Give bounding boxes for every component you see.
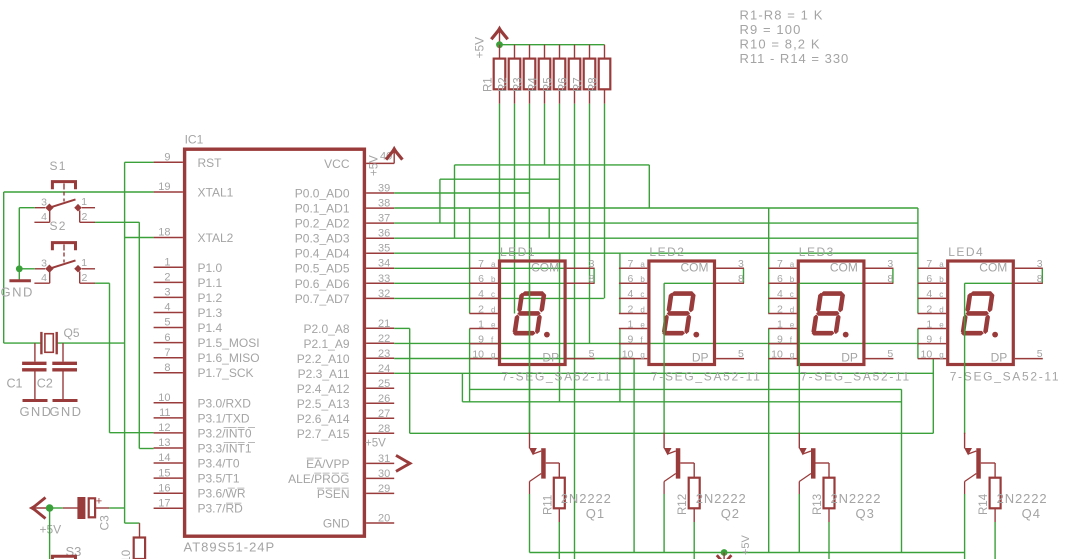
svg-text:34: 34	[378, 258, 390, 270]
pin 1 segment e of LED3	[768, 328, 796, 330]
svg-text:c: c	[790, 290, 794, 299]
pin 5 P1.4	[154, 327, 183, 329]
svg-text:7-SEG_SA52-11: 7-SEG_SA52-11	[651, 369, 762, 383]
svg-text:a: a	[939, 260, 944, 269]
capacitor C2	[62, 343, 64, 362]
svg-text:8: 8	[887, 273, 893, 285]
ground GND below S2	[18, 269, 20, 280]
svg-text:37: 37	[378, 213, 390, 225]
svg-text:6: 6	[478, 273, 484, 285]
pin 3 COM of LED3	[866, 267, 894, 269]
display LED1 decimal point	[544, 332, 550, 338]
pin 1 P1.0	[154, 266, 183, 268]
svg-text:P2.7_A15: P2.7_A15	[297, 427, 350, 441]
svg-text:e: e	[491, 320, 496, 329]
pin 14 P3.4/T0	[154, 462, 183, 464]
svg-text:GND: GND	[1, 285, 34, 300]
wire emitter feed Q3	[798, 283, 800, 434]
pin 1 segment e of LED1	[470, 328, 498, 330]
wire mid drop x634	[633, 359, 635, 553]
pin 2 segment d of LED2	[619, 313, 647, 315]
display LED2 decimal point	[693, 332, 699, 338]
pin 24 P2.3_A11	[366, 372, 394, 374]
svg-text:GND: GND	[20, 404, 53, 419]
wire base Q4	[981, 462, 995, 464]
svg-text:a: a	[790, 260, 795, 269]
svg-text:P0.2_AD2: P0.2_AD2	[295, 217, 350, 231]
pin 9 segment f of LED2	[619, 343, 647, 345]
wire P0.0 net from pin 39	[394, 192, 529, 194]
svg-text:22: 22	[378, 333, 390, 345]
display LED3 7-SEG_SA52-11	[798, 261, 864, 365]
wire P2.1 net pin 22 / segment f row	[394, 342, 918, 344]
svg-text:R1-R8 = 1 K: R1-R8 = 1 K	[740, 8, 824, 23]
pin 20 GND	[366, 522, 394, 524]
transistor Q4 2N2222	[976, 448, 981, 478]
svg-text:9: 9	[628, 333, 634, 345]
wire P0.7 net segment c row	[394, 297, 604, 299]
svg-text:g: g	[491, 350, 495, 359]
svg-text:9: 9	[164, 152, 170, 164]
svg-text:2N2222: 2N2222	[696, 491, 747, 506]
wire COM net LED3	[799, 282, 893, 284]
wire base Q2	[680, 462, 694, 464]
pin 16 P3.6/WR	[154, 492, 183, 494]
svg-text:g: g	[640, 350, 644, 359]
svg-text:9: 9	[926, 333, 932, 345]
svg-text:7-SEG_SA52-11: 7-SEG_SA52-11	[502, 369, 613, 383]
svg-text:COM: COM	[830, 261, 858, 275]
wire collector bus at bottom	[530, 552, 965, 554]
svg-text:1: 1	[777, 318, 783, 330]
svg-text:P1.7_SCK: P1.7_SCK	[198, 366, 254, 380]
svg-text:1: 1	[81, 257, 87, 269]
pin 35 P0.4_AD4	[366, 252, 394, 254]
svg-text:2: 2	[82, 211, 88, 223]
svg-text:4: 4	[777, 288, 783, 300]
svg-text:P2.4_A12: P2.4_A12	[297, 382, 350, 396]
wire P2.3 net from pin 24	[394, 372, 933, 374]
svg-text:b: b	[790, 275, 795, 284]
wire riser right end of select line	[932, 359, 934, 434]
svg-text:P0.6_AD6: P0.6_AD6	[295, 277, 350, 291]
svg-text:P1.0: P1.0	[198, 261, 223, 275]
wire riser at x439	[439, 179, 441, 223]
pin 10 segment g of LED1	[470, 358, 498, 360]
svg-text:P3.4/T0: P3.4/T0	[198, 457, 240, 471]
svg-text:g: g	[939, 350, 943, 359]
wire COM net LED4	[965, 282, 1043, 284]
pin 7 P1.6_MISO	[154, 357, 183, 359]
pin 32 P0.7_AD7	[366, 297, 394, 299]
svg-text:7: 7	[628, 258, 634, 270]
svg-text:P0.3_AD3: P0.3_AD3	[295, 232, 350, 246]
svg-text:4: 4	[926, 288, 932, 300]
svg-text:P0.5_AD5: P0.5_AD5	[295, 262, 350, 276]
svg-text:d: d	[790, 305, 794, 314]
svg-text:P3.2/I̅N̅T̅0̅: P3.2/I̅N̅T̅0̅	[198, 426, 256, 440]
svg-text:c: c	[939, 290, 943, 299]
svg-text:25: 25	[378, 378, 390, 390]
svg-text:6: 6	[628, 273, 634, 285]
svg-text:3: 3	[589, 258, 595, 270]
wire C3 node	[50, 507, 63, 509]
pin 31 EA/VPP	[366, 462, 394, 464]
svg-text:8: 8	[738, 273, 744, 285]
pin 4 segment c of LED2	[619, 297, 647, 299]
svg-text:33: 33	[378, 273, 390, 285]
svg-text:P2.3_A11: P2.3_A11	[298, 367, 350, 381]
power +5V at bottom bus	[721, 549, 728, 556]
svg-text:4: 4	[628, 288, 634, 300]
svg-text:P3.1/TXD: P3.1/TXD	[198, 411, 250, 425]
wire LED3 riser lower	[768, 329, 770, 553]
svg-text:3: 3	[41, 257, 47, 269]
ground GND below C1	[23, 399, 48, 402]
svg-text:GND: GND	[50, 404, 83, 419]
resistor R14	[990, 478, 1001, 509]
wire LED1 riser upper	[469, 208, 471, 314]
svg-text:d: d	[640, 305, 644, 314]
pin 2 segment d of LED1	[470, 313, 498, 315]
svg-text:RST: RST	[198, 156, 223, 170]
pin 30 ALE/PROG	[366, 477, 394, 479]
svg-text:4: 4	[41, 272, 47, 284]
svg-text:P̅S̅E̅N̅: P̅S̅E̅N̅	[316, 487, 349, 501]
svg-text:P1.2: P1.2	[198, 291, 223, 305]
wire below-display line 1	[470, 388, 902, 390]
svg-text:DP: DP	[692, 351, 709, 365]
wire riser at x649	[648, 165, 650, 208]
svg-text:P2.2_A10: P2.2_A10	[297, 352, 350, 366]
pin 9 segment f of LED1	[470, 343, 498, 345]
wire P0.4 net from pin 35	[394, 252, 918, 254]
pin 13 P3.3/INT1	[154, 447, 183, 449]
wire P0.5 net segment a row	[394, 267, 594, 269]
svg-text:P2.0_A8: P2.0_A8	[303, 322, 349, 336]
svg-text:VCC: VCC	[324, 157, 350, 171]
wire crystal right plate to riser	[57, 342, 125, 344]
wire LED2 riser lower	[619, 329, 621, 402]
svg-text:5: 5	[589, 348, 595, 360]
node +5V rail junction	[496, 41, 503, 48]
svg-text:2N2222: 2N2222	[831, 491, 882, 506]
svg-text:7: 7	[926, 258, 932, 270]
pin 11 P3.1/TXD	[154, 417, 183, 419]
pin 6 segment b of LED2	[619, 282, 647, 284]
svg-text:+5V: +5V	[40, 523, 62, 537]
svg-text:4: 4	[164, 302, 170, 314]
svg-text:9: 9	[478, 333, 484, 345]
svg-text:E̅A̅/VPP: E̅A̅/VPP	[306, 457, 349, 471]
svg-text:11: 11	[159, 407, 170, 419]
svg-text:28: 28	[378, 423, 390, 435]
svg-text:15: 15	[158, 467, 170, 479]
svg-text:8: 8	[1037, 273, 1043, 285]
pin 7 segment a of LED1	[470, 267, 498, 269]
svg-text:LED2: LED2	[649, 245, 685, 259]
svg-text:Q3: Q3	[856, 506, 875, 521]
wire R10 jog at bottom	[125, 522, 140, 524]
wire COM tie LED3	[892, 268, 894, 283]
pin 40 VCC	[366, 162, 394, 164]
wire right drop to bus	[901, 389, 903, 552]
pin 17 P3.7/RD	[154, 507, 183, 509]
svg-text:10: 10	[771, 348, 783, 360]
svg-text:b: b	[640, 275, 645, 284]
wire COM net LED2	[664, 282, 743, 284]
svg-text:R9 = 100: R9 = 100	[740, 22, 802, 37]
wire junction S2 pin3	[19, 268, 35, 270]
wire COM tie LED2	[743, 268, 745, 283]
svg-text:7-SEG_SA52-11: 7-SEG_SA52-11	[950, 369, 1061, 383]
pin 18 XTAL2	[154, 237, 183, 239]
svg-text:P3.3/I̅N̅T̅1̅: P3.3/I̅N̅T̅1̅	[198, 442, 256, 456]
pin 5 DP of LED4	[1015, 358, 1043, 360]
svg-text:R10: R10	[121, 550, 133, 559]
wire net column R2	[514, 104, 516, 314]
wire LED4 riser lower	[917, 329, 919, 359]
svg-text:2: 2	[628, 303, 634, 315]
svg-text:4: 4	[478, 288, 484, 300]
wire base Q3	[816, 462, 830, 464]
wire net column R5	[559, 104, 561, 402]
wire bus top segment	[455, 164, 650, 166]
svg-text:Q4: Q4	[1022, 506, 1041, 521]
wire riser at x454	[454, 165, 456, 238]
svg-text:13: 13	[158, 437, 170, 449]
pin 6 segment b of LED3	[768, 282, 796, 284]
wire below-display line 2	[462, 401, 901, 403]
svg-text:+5V: +5V	[740, 534, 752, 555]
wire R12 bottom	[693, 522, 695, 559]
wire LED4 riser upper	[917, 208, 919, 314]
svg-text:4: 4	[41, 211, 47, 223]
svg-text:30: 30	[378, 468, 390, 480]
wire COM tie LED1	[593, 268, 595, 283]
wire P0.3 net from pin 36	[394, 237, 918, 239]
svg-text:XTAL2: XTAL2	[198, 231, 234, 245]
svg-text:P1.4: P1.4	[198, 321, 223, 335]
pin 5 DP of LED1	[567, 358, 595, 360]
svg-text:LED4: LED4	[948, 245, 984, 259]
pin 6 segment b of LED1	[470, 282, 498, 284]
display LED4 7-SEG_SA52-11	[948, 261, 1014, 365]
pin 9 segment f of LED4	[918, 343, 946, 345]
svg-text:R11: R11	[542, 495, 554, 515]
pin 29 PSEN	[366, 492, 394, 494]
wire net column R8	[604, 104, 606, 299]
svg-text:DP: DP	[841, 351, 858, 365]
wire bus second segment	[440, 178, 560, 180]
pin 9 RST	[154, 161, 183, 163]
svg-text:23: 23	[378, 348, 390, 360]
svg-text:3: 3	[41, 196, 47, 208]
svg-text:b: b	[491, 275, 496, 284]
svg-text:19: 19	[158, 181, 170, 193]
svg-text:7: 7	[164, 347, 170, 359]
display LED1 7-SEG_SA52-11	[500, 261, 566, 365]
svg-text:3: 3	[887, 258, 893, 270]
svg-text:1: 1	[81, 196, 87, 208]
svg-text:+5V: +5V	[473, 37, 487, 59]
svg-text:GND: GND	[323, 517, 350, 531]
wire S2 to IC pin12 (INT0)	[95, 282, 110, 284]
node +5V junction	[46, 504, 54, 512]
svg-text:38: 38	[378, 198, 390, 210]
svg-text:2N2222: 2N2222	[997, 491, 1048, 506]
wire base Q1	[546, 462, 560, 464]
wire C3 to RST riser	[109, 507, 125, 509]
pin 7 segment a of LED3	[768, 267, 796, 269]
svg-text:P3.6/W̅R̅: P3.6/W̅R̅	[198, 487, 246, 501]
svg-text:29: 29	[378, 483, 390, 495]
svg-text:P0.1_AD1: P0.1_AD1	[295, 202, 350, 216]
pin 9 segment f of LED3	[768, 343, 796, 345]
svg-text:24: 24	[378, 363, 390, 375]
svg-text:Q1: Q1	[586, 506, 605, 521]
svg-text:35: 35	[378, 243, 390, 255]
svg-text:P1.5_MOSI: P1.5_MOSI	[198, 336, 260, 350]
svg-text:6: 6	[164, 332, 170, 344]
svg-text:5: 5	[164, 317, 170, 329]
wire collector Q4 to bus	[964, 494, 966, 559]
svg-text:Q2: Q2	[721, 506, 740, 521]
pin 22 P2.1_A9	[366, 342, 394, 344]
svg-text:31: 31	[378, 453, 390, 465]
pin 1 segment e of LED2	[619, 328, 647, 330]
svg-text:6: 6	[777, 273, 783, 285]
svg-text:C1: C1	[7, 377, 23, 391]
svg-text:Q5: Q5	[64, 326, 80, 340]
display LED3 decimal point	[843, 332, 849, 338]
svg-text:36: 36	[378, 228, 390, 240]
power +5V at VCC pin 40	[393, 149, 395, 163]
pin 4 segment c of LED3	[768, 297, 796, 299]
transistor Q3 2N2222	[811, 448, 816, 478]
svg-text:1: 1	[628, 318, 634, 330]
svg-text:7: 7	[777, 258, 783, 270]
pin 37 P0.2_AD2	[366, 222, 394, 224]
svg-text:17: 17	[158, 497, 170, 509]
svg-text:P0.0_AD0: P0.0_AD0	[295, 187, 350, 201]
svg-text:18: 18	[158, 227, 170, 239]
pin 7 segment a of LED4	[918, 267, 946, 269]
svg-text:b: b	[939, 275, 944, 284]
capacitor C1	[34, 343, 36, 362]
svg-text:7: 7	[478, 258, 484, 270]
svg-text:LED3: LED3	[799, 245, 835, 259]
wire net column R4	[544, 104, 546, 165]
svg-text:d: d	[939, 305, 943, 314]
pin 8 COM of LED1	[567, 282, 595, 284]
pin 5 DP of LED3	[866, 358, 894, 360]
svg-text:10: 10	[921, 348, 933, 360]
wire LED3 riser upper	[768, 208, 770, 314]
pin 38 P0.1_AD1	[366, 207, 394, 209]
svg-text:e: e	[640, 320, 645, 329]
svg-text:1: 1	[478, 318, 484, 330]
svg-text:C2: C2	[37, 377, 53, 391]
svg-text:14: 14	[158, 452, 170, 464]
wire collector Q3 to bus	[798, 494, 800, 553]
wire R14 bottom	[994, 522, 996, 559]
svg-text:+5V: +5V	[365, 438, 386, 450]
wire XTAL1 net from IC pin 19 to crystal	[4, 191, 154, 193]
display LED4 decimal point	[992, 332, 998, 338]
svg-text:27: 27	[378, 408, 390, 420]
svg-text:3: 3	[738, 258, 744, 270]
wire P2.0 net from pin 21	[394, 327, 410, 329]
svg-text:IC1: IC1	[185, 133, 204, 147]
wire emitter feed Q4	[964, 283, 966, 434]
svg-text:P2.5_A13: P2.5_A13	[297, 397, 350, 411]
svg-text:R14: R14	[978, 493, 990, 515]
svg-text:P1.6_MISO: P1.6_MISO	[198, 351, 260, 365]
svg-text:R10 = 8,2 K: R10 = 8,2 K	[740, 37, 821, 52]
pin 2 segment d of LED3	[768, 313, 796, 315]
pin 8 COM of LED4	[1015, 282, 1043, 284]
IC U1 AT89S51-24P body	[185, 149, 365, 536]
svg-text:7-SEG_SA52-11: 7-SEG_SA52-11	[800, 369, 911, 383]
pin 3 P1.2	[154, 296, 183, 298]
pin 6 P1.5_MOSI	[154, 342, 183, 344]
pin 23 P2.2_A10	[366, 357, 394, 359]
svg-text:P2.6_A14: P2.6_A14	[297, 412, 350, 426]
svg-text:C3: C3	[98, 515, 112, 531]
pin 6 segment b of LED4	[918, 282, 946, 284]
svg-text:a: a	[491, 260, 496, 269]
svg-text:8: 8	[589, 273, 595, 285]
pin 2 segment d of LED4	[918, 313, 946, 315]
svg-text:6: 6	[926, 273, 932, 285]
pin 12 P3.2/INT0	[154, 432, 183, 434]
svg-text:c: c	[640, 290, 644, 299]
pin 10 segment g of LED2	[619, 358, 647, 360]
svg-text:COM: COM	[681, 261, 709, 275]
svg-text:5: 5	[738, 348, 744, 360]
pin 39 P0.0_AD0	[366, 192, 394, 194]
wire R11 bottom	[558, 522, 560, 559]
svg-text:R13: R13	[812, 494, 824, 515]
pin 8 P1.7_SCK	[154, 372, 183, 374]
svg-text:d: d	[491, 305, 495, 314]
svg-text:COM: COM	[531, 261, 559, 275]
pin 26 P2.5_A13	[366, 402, 394, 404]
svg-text:2N2222: 2N2222	[561, 491, 612, 506]
svg-text:P1.1: P1.1	[198, 276, 223, 290]
svg-text:20: 20	[378, 513, 390, 525]
pin 34 P0.5_AD5	[366, 267, 394, 269]
svg-text:12: 12	[158, 422, 170, 434]
svg-text:P0.7_AD7: P0.7_AD7	[295, 292, 350, 306]
svg-text:R11 - R14 = 330: R11 - R14 = 330	[740, 51, 850, 66]
svg-text:16: 16	[158, 482, 170, 494]
wire P2.2 net pin 23 / segment g row	[394, 358, 634, 360]
capacitor C3 (polarized)	[63, 507, 78, 509]
svg-text:2: 2	[164, 272, 170, 284]
wire S1 pin2 to IC pin13 (INT1)	[95, 221, 139, 223]
svg-text:S2: S2	[50, 219, 67, 233]
svg-text:AT89S51-24P: AT89S51-24P	[184, 540, 276, 555]
svg-text:9: 9	[777, 333, 783, 345]
wire net column R7	[589, 104, 591, 344]
wire XTAL2 net: IC pin18 stub join	[125, 237, 154, 239]
wire COM tie LED4	[1041, 268, 1043, 283]
svg-text:5: 5	[1037, 348, 1043, 360]
wire net column R3 down to Q1	[529, 104, 531, 434]
svg-text:2: 2	[777, 303, 783, 315]
